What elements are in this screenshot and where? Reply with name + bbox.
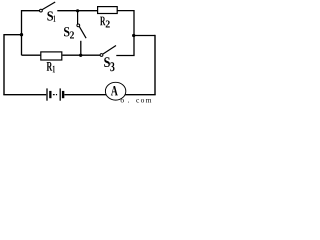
wire: left link horizontal from outer loop to node A bbox=[4, 34, 22, 36]
node D junction dot bbox=[79, 54, 82, 57]
svg-text:o.: o. bbox=[120, 95, 132, 104]
wire: R2 right and down to node C bbox=[117, 11, 134, 36]
wire: right outer vertical bbox=[154, 35, 156, 95]
label S2 bbox=[64, 27, 74, 38]
label R1 bbox=[47, 62, 55, 72]
switch S3 contact circle bbox=[100, 54, 103, 57]
wire: bottom right to ammeter bbox=[124, 94, 156, 96]
wire: inner left vertical and top-left horizontal to S1 bbox=[22, 11, 40, 56]
wire: bottom left to battery bbox=[3, 94, 46, 96]
switch S2 blade bbox=[79, 27, 86, 39]
label R2 bbox=[100, 17, 110, 28]
battery short thick plate 2 bbox=[62, 91, 64, 98]
svg-text:com: com bbox=[136, 95, 153, 104]
ammeter letter A bbox=[111, 86, 118, 95]
wire: node D to S3 bbox=[81, 54, 100, 56]
ammeter A circle bbox=[105, 82, 125, 100]
battery dashes bbox=[53, 94, 57, 96]
node B junction dot bbox=[76, 9, 79, 12]
switch S1 blade bbox=[42, 2, 55, 10]
node A junction dot bbox=[20, 33, 23, 36]
wire: top middle segment S1 to R2 bbox=[57, 10, 98, 12]
battery: wire from battery to ammeter bbox=[64, 94, 107, 96]
node C junction dot bbox=[132, 34, 135, 37]
battery long plate 1 bbox=[46, 88, 48, 100]
label S1 bbox=[47, 11, 55, 21]
resistor R2 bbox=[98, 7, 118, 14]
battery short thick plate 1 bbox=[49, 91, 51, 98]
wire: feed to R1 bbox=[22, 54, 41, 56]
label S3 bbox=[104, 57, 114, 71]
battery long plate 2 bbox=[59, 88, 61, 100]
resistor R1 bbox=[41, 52, 62, 60]
wire: R1 to node D bbox=[62, 54, 80, 56]
switch S1 contact circle bbox=[40, 9, 43, 12]
switch S3 blade bbox=[103, 46, 116, 55]
switch S2 contact circle bbox=[77, 24, 80, 27]
switch S2 lower contact wire bbox=[80, 41, 82, 55]
wire: node C down and left to S3 bbox=[116, 36, 134, 56]
wire: left outer vertical bbox=[3, 34, 5, 95]
switch S2 stub from node B bbox=[77, 11, 79, 24]
wire: top right horizontal from node C bbox=[134, 35, 155, 37]
